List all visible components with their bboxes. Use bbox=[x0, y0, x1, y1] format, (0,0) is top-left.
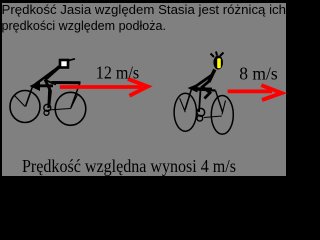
svg-text:8 m/s: 8 m/s bbox=[239, 64, 278, 84]
right handlebar arrow head bbox=[188, 84, 198, 93]
left handlebar arrow shaft bbox=[33, 84, 53, 87]
left rider saddle link bbox=[45, 80, 56, 85]
left bicycle front wheel bbox=[10, 91, 40, 123]
right bicycle crank circle bbox=[197, 108, 205, 116]
right bicycle seat tube bbox=[199, 90, 201, 112]
left handlebar arrow head bbox=[30, 81, 41, 91]
left bicycle seat tube bbox=[49, 87, 50, 108]
left bicycle rear wheel bbox=[55, 92, 86, 125]
right rider hair spike left bbox=[211, 54, 215, 58]
right red velocity arrow head bbox=[261, 85, 281, 100]
left rider body bbox=[45, 67, 60, 80]
right rider legs bbox=[202, 82, 210, 99]
left bicycle pedal circle bbox=[44, 110, 49, 115]
right handlebar arrow shaft bbox=[191, 87, 212, 90]
svg-text:prędkości względem podłoża.: prędkości względem podłoża. bbox=[2, 18, 167, 33]
right bicycle front wheel bbox=[174, 93, 196, 131]
left bicycle fork bbox=[26, 87, 33, 107]
right rider face (yellow) bbox=[217, 58, 221, 68]
left red velocity arrow shaft bbox=[60, 85, 142, 89]
right bicycle rear wheel bbox=[211, 96, 233, 135]
left rider arm bbox=[35, 69, 56, 85]
right bicycle rear wheel spoke bbox=[222, 101, 226, 115]
right bicycle chain stay bbox=[204, 116, 222, 118]
right red velocity arrow shaft bbox=[228, 90, 272, 94]
svg-text:Prędkość Jasia względem Stasia: Prędkość Jasia względem Stasia jest różn… bbox=[2, 2, 287, 17]
right rider head bbox=[213, 56, 223, 70]
left rider legs bbox=[45, 80, 51, 106]
left bicycle chain stay bbox=[48, 109, 71, 111]
svg-text:12 m/s: 12 m/s bbox=[96, 62, 140, 82]
right bicycle pedal circle bbox=[197, 115, 203, 121]
right rider body bbox=[209, 70, 215, 83]
left bicycle front wheel spoke bbox=[15, 96, 26, 107]
right bicycle top tube bbox=[196, 90, 216, 91]
grey panel bbox=[2, 3, 286, 176]
right bicycle seat stay bbox=[216, 91, 223, 113]
right rider hair spike mid bbox=[216, 52, 217, 56]
right rider arm bbox=[194, 75, 213, 88]
left bicycle seat stay bbox=[71, 84, 80, 108]
left red velocity arrow head bbox=[128, 79, 148, 96]
left rider head bbox=[60, 60, 68, 68]
right bicycle front wheel spoke bbox=[180, 98, 186, 112]
black frame background bbox=[0, 0, 288, 192]
right rider hair spike right bbox=[220, 53, 224, 57]
left bicycle top tube / saddle bar bbox=[52, 81, 81, 84]
svg-text:Prędkość względna wynosi 4 m/s: Prędkość względna wynosi 4 m/s bbox=[22, 156, 236, 176]
right bicycle fork bbox=[185, 89, 192, 110]
left bicycle rear wheel spoke bbox=[71, 95, 78, 109]
left bicycle crank circle bbox=[44, 104, 51, 111]
left rider cap visor bbox=[69, 59, 76, 61]
